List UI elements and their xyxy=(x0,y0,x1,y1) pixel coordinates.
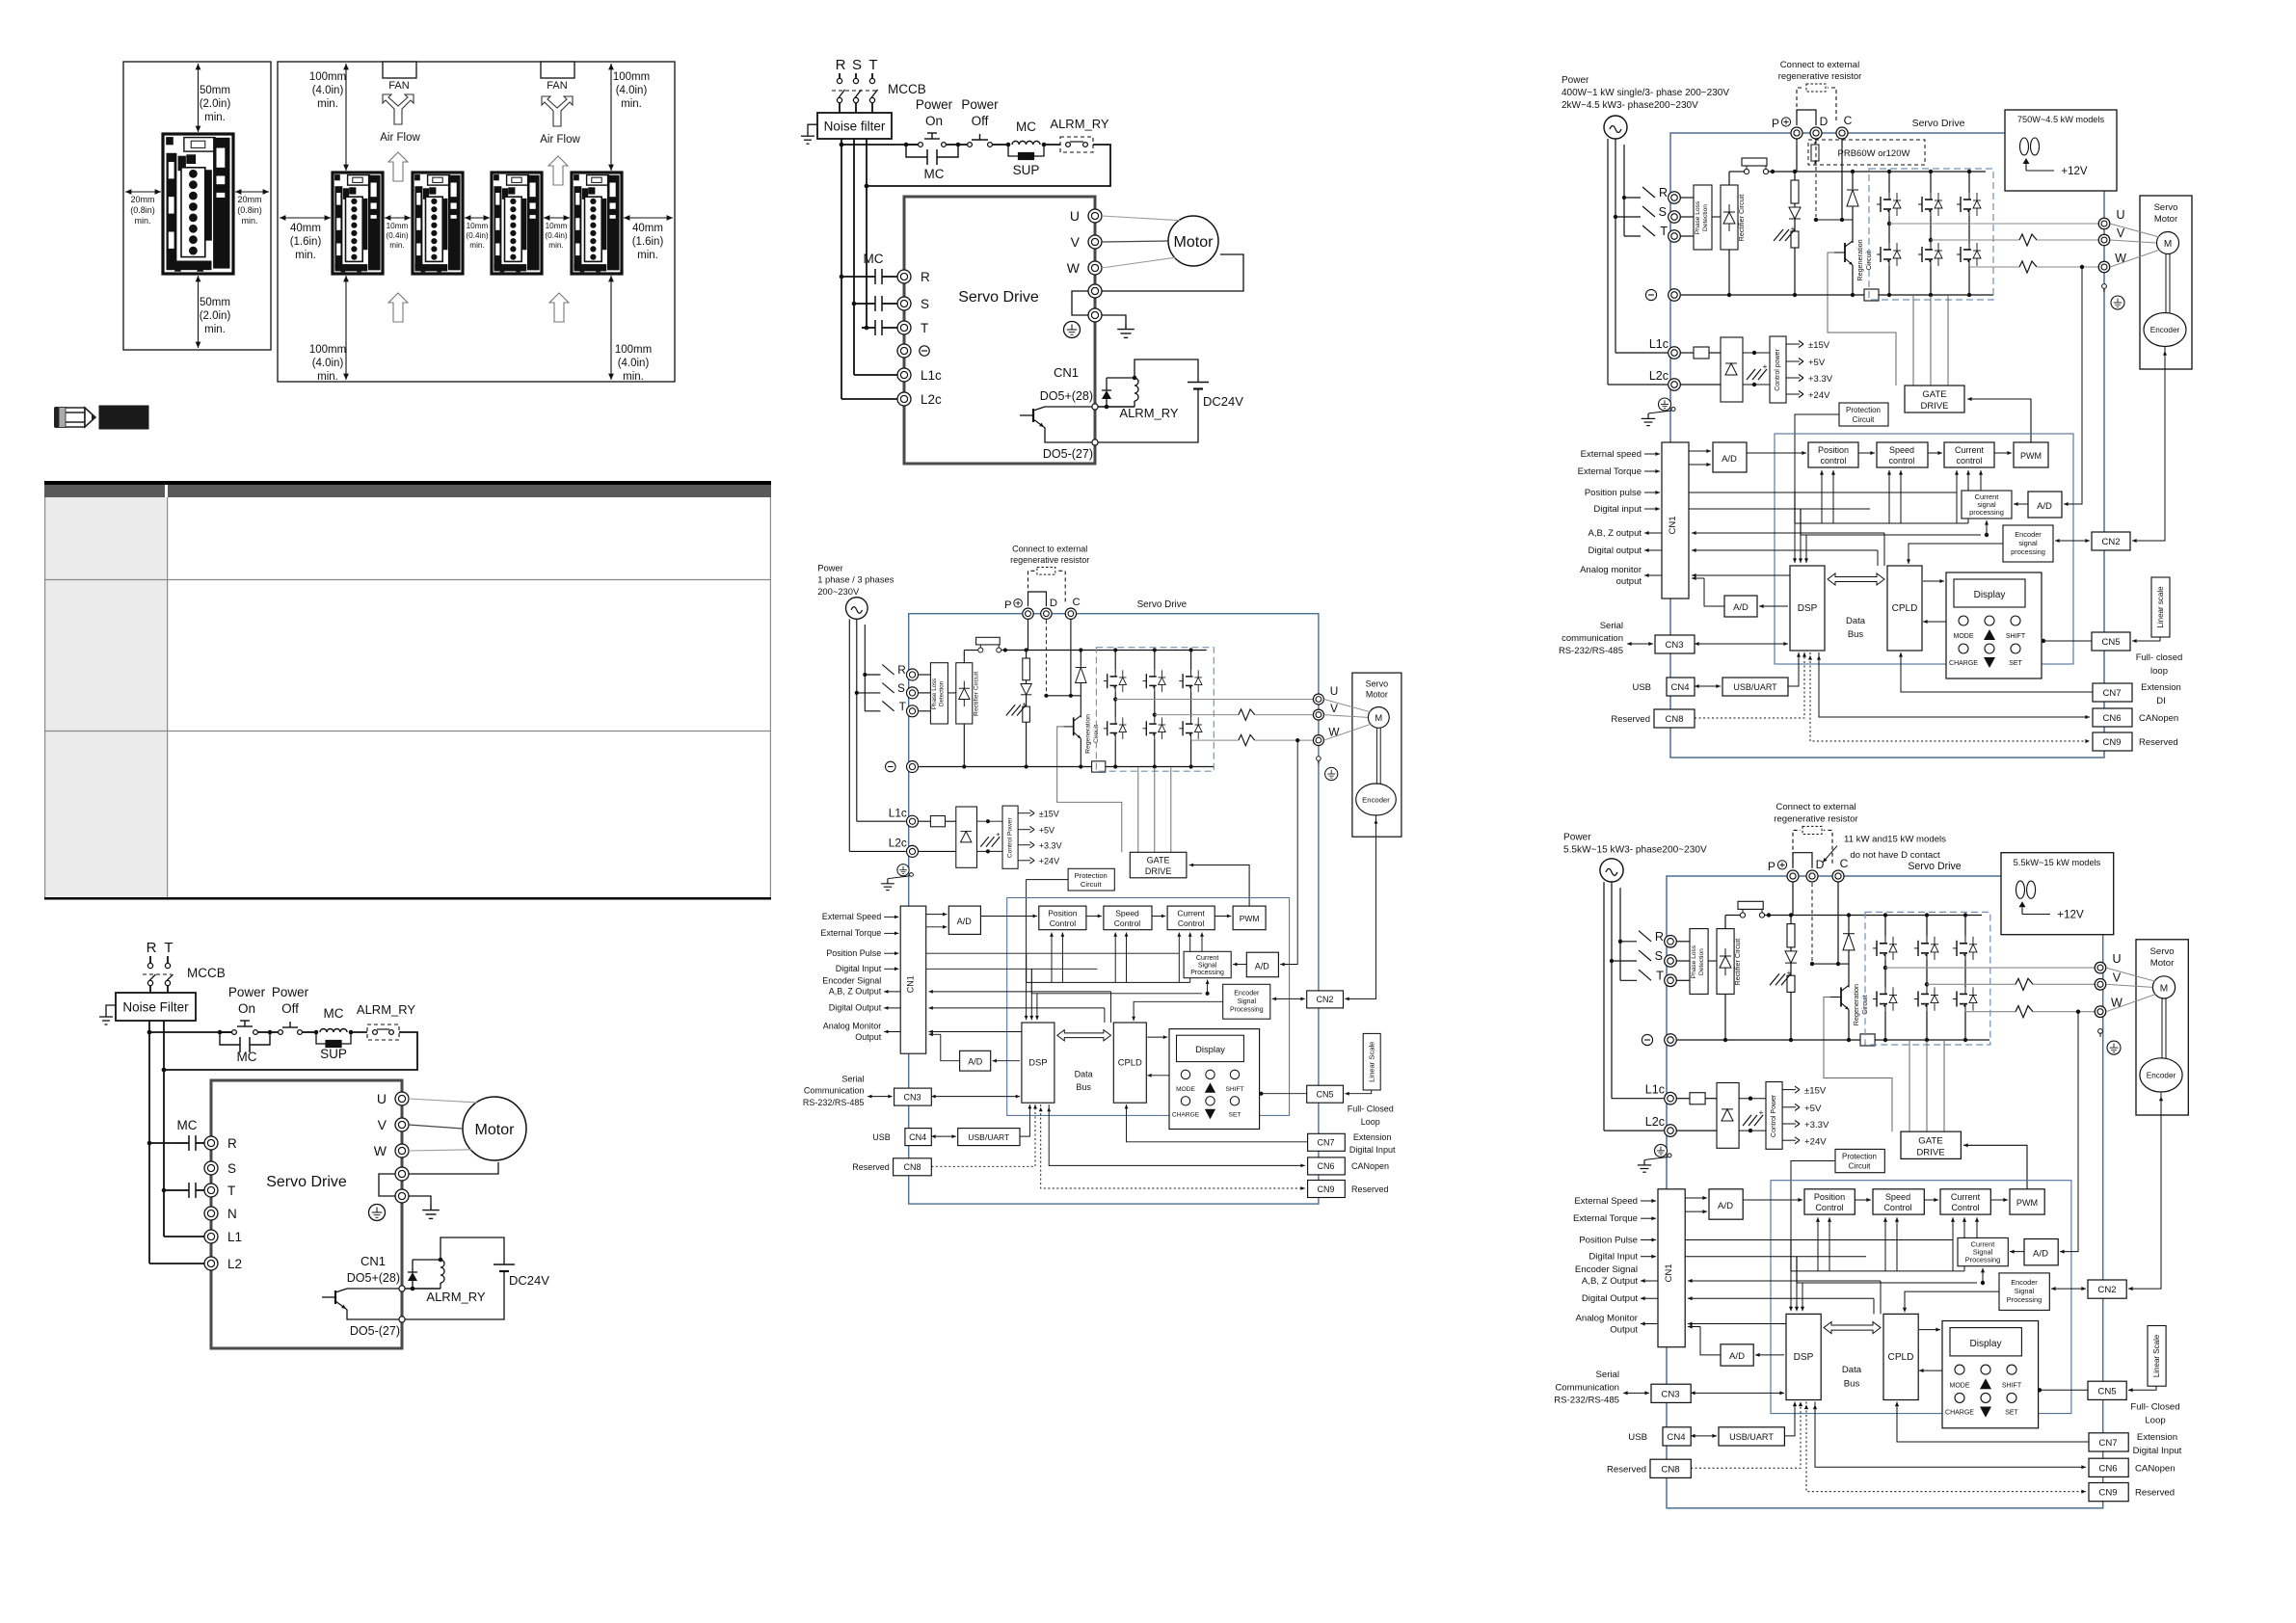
motor shaft to encoder xyxy=(1375,728,1377,785)
wire feeders to contacts xyxy=(149,1142,175,1144)
terminal S xyxy=(907,687,919,699)
wire rectifier negative xyxy=(1724,994,1726,1040)
drive earth xyxy=(1659,398,1671,411)
svg-text:Protection: Protection xyxy=(1842,1153,1877,1161)
regeneration diode xyxy=(1852,172,1854,189)
jumper P-D xyxy=(1028,592,1047,606)
svg-text:Bus: Bus xyxy=(1076,1082,1091,1092)
svg-text:CN9: CN9 xyxy=(1317,1184,1334,1194)
switch T xyxy=(1642,226,1655,236)
position control xyxy=(1804,1189,1855,1214)
svg-text:R: R xyxy=(921,270,930,284)
svg-text:DO5+(28): DO5+(28) xyxy=(347,1271,400,1285)
svg-text:CN2: CN2 xyxy=(2097,1285,2116,1295)
svg-text:DO5+(28): DO5+(28) xyxy=(1040,389,1093,403)
connector CN2 xyxy=(2092,532,2130,550)
linear scale xyxy=(2148,1326,2166,1387)
svg-text:output: output xyxy=(1616,576,1642,587)
noise filter ground xyxy=(808,124,817,136)
display panel xyxy=(1169,1029,1260,1130)
svg-text:Encoder Signal: Encoder Signal xyxy=(1575,1264,1638,1275)
wire USB/UART to DSP xyxy=(1788,652,1799,686)
IGBT power module (dashed) xyxy=(1869,169,1993,300)
svg-text:Control: Control xyxy=(1883,1203,1911,1212)
svg-text:+: + xyxy=(1787,969,1792,977)
dimension 20mm right xyxy=(235,191,269,193)
dimension 10mm xyxy=(385,217,411,219)
svg-text:V: V xyxy=(2117,226,2125,240)
terminal R xyxy=(907,669,919,680)
svg-text:DRIVE: DRIVE xyxy=(1920,401,1948,412)
svg-text:Connect to external: Connect to external xyxy=(1780,60,1859,70)
current sensor xyxy=(1239,734,1255,745)
terminal W xyxy=(2098,261,2110,273)
wire digital output to CN1 xyxy=(1688,1297,1874,1299)
svg-text:control: control xyxy=(1956,456,1982,466)
jumper P-D xyxy=(1797,110,1816,125)
wire CN1 digital input xyxy=(926,968,1098,970)
terminal S xyxy=(1665,955,1677,968)
connector CN4 xyxy=(1667,678,1695,696)
svg-text:M: M xyxy=(2164,239,2172,250)
svg-text:SUP: SUP xyxy=(1013,163,1040,177)
servo drive unit drawing xyxy=(413,173,463,274)
svg-text:DO5-(27): DO5-(27) xyxy=(1043,447,1093,461)
connector CN2 xyxy=(2088,1280,2126,1298)
svg-text:Power: Power xyxy=(961,97,999,112)
wire motor ground xyxy=(1102,254,1243,291)
wire CN3 to DSP xyxy=(1691,1392,1784,1394)
wire current sense to A/D xyxy=(2060,1012,2078,1252)
svg-text:Circuit: Circuit xyxy=(1849,1162,1871,1171)
bus lower resistor xyxy=(1791,231,1799,248)
svg-text:USB/UART: USB/UART xyxy=(1733,682,1777,692)
svg-text:V: V xyxy=(1330,702,1338,715)
wire speed to current xyxy=(1152,916,1165,918)
svg-text:CN3: CN3 xyxy=(1661,1389,1679,1399)
svg-text:Output: Output xyxy=(1610,1325,1638,1336)
svg-text:A,B, Z output: A,B, Z output xyxy=(1589,528,1642,539)
wire digital output to CN1 xyxy=(929,1007,1105,1009)
svg-text:A/D: A/D xyxy=(1718,1201,1733,1211)
wire current to PWM xyxy=(1215,916,1231,918)
wire rectifier negative xyxy=(963,724,965,766)
drive earth xyxy=(1655,1144,1668,1157)
wire rectifier negative xyxy=(1728,250,1730,295)
svg-text:CN8: CN8 xyxy=(1661,1464,1679,1475)
terminal R xyxy=(1665,936,1677,948)
speed control xyxy=(1877,442,1928,467)
terminal T xyxy=(1669,230,1681,243)
connector CN8 xyxy=(1650,1459,1691,1477)
gate drive xyxy=(1905,386,1964,412)
terminal minus xyxy=(1669,289,1681,302)
wire linear scale to CN5 xyxy=(2132,637,2160,641)
svg-text:+5V: +5V xyxy=(1808,358,1826,368)
svg-text:+24V: +24V xyxy=(1804,1136,1827,1147)
control mesh wires xyxy=(1795,522,1968,524)
connector CN1 xyxy=(1658,1189,1685,1347)
svg-text:10mm: 10mm xyxy=(387,222,409,230)
wire protection to control xyxy=(1795,414,1839,523)
wire CSP to current control xyxy=(1201,933,1203,952)
svg-text:CPLD: CPLD xyxy=(1892,603,1918,614)
svg-text:R: R xyxy=(897,663,906,677)
terminal C xyxy=(1065,608,1076,619)
wires R S T to phase loss detection xyxy=(1680,197,1694,199)
USB/UART xyxy=(1722,678,1788,696)
terminal L1c xyxy=(907,815,919,827)
svg-text:Full- Closed: Full- Closed xyxy=(1348,1104,1394,1114)
wire analog monitor to CN1 xyxy=(929,1031,1022,1033)
IGBT leg 3 xyxy=(1968,172,1970,193)
svg-text:Digital Output: Digital Output xyxy=(1582,1293,1638,1304)
svg-text:SHIFT: SHIFT xyxy=(2006,633,2026,640)
connector CN6 xyxy=(2089,1458,2128,1477)
wire battery return xyxy=(405,1271,504,1319)
bus diode xyxy=(1794,203,1796,207)
svg-text:Reserved: Reserved xyxy=(852,1162,890,1172)
terminal R xyxy=(1669,192,1681,204)
terminal V xyxy=(2095,979,2106,991)
wire CN9 reserved (dotted) xyxy=(1041,1104,1305,1188)
svg-text:CN8: CN8 xyxy=(903,1162,921,1172)
motor wires xyxy=(2110,224,2159,237)
svg-text:MC: MC xyxy=(924,167,945,181)
servo drive unit drawing xyxy=(333,173,383,274)
svg-text:Motor: Motor xyxy=(1366,690,1388,700)
svg-text:MODE: MODE xyxy=(1950,1382,1970,1389)
connector CN4 xyxy=(1663,1427,1691,1446)
svg-text:D: D xyxy=(1050,598,1057,609)
svg-text:20mm: 20mm xyxy=(130,195,154,204)
svg-text:5.5kW~15 kW3- phase200~230V: 5.5kW~15 kW3- phase200~230V xyxy=(1563,845,1707,856)
svg-text:50mm: 50mm xyxy=(200,85,230,96)
wire C terminal down xyxy=(1070,619,1072,695)
svg-text:Power: Power xyxy=(1563,833,1591,843)
current sensor xyxy=(2019,261,2037,273)
svg-text:Phase Loss: Phase Loss xyxy=(1695,200,1701,234)
svg-text:U: U xyxy=(1330,684,1339,698)
ground terminals xyxy=(395,1167,409,1181)
svg-text:CN5: CN5 xyxy=(2097,1386,2116,1397)
svg-text:Encoder: Encoder xyxy=(2015,530,2042,539)
svg-text:SET: SET xyxy=(2005,1410,2018,1417)
svg-text:Communication: Communication xyxy=(1555,1382,1619,1393)
switch R xyxy=(1642,187,1655,198)
output terminals U V W xyxy=(395,1092,409,1105)
current sensor xyxy=(2016,978,2033,990)
svg-text:Digital Input: Digital Input xyxy=(1589,1252,1638,1263)
svg-text:N: N xyxy=(227,1207,237,1221)
fan air flow Y-arrow xyxy=(542,96,573,126)
svg-text:ALRM_RY: ALRM_RY xyxy=(357,1002,416,1017)
svg-text:External Speed: External Speed xyxy=(822,912,882,921)
svg-text:Processing: Processing xyxy=(2007,1295,2042,1304)
terminal P xyxy=(1023,608,1033,619)
svg-text:+3.3V: +3.3V xyxy=(1039,841,1062,851)
svg-text:DO5-(27): DO5-(27) xyxy=(350,1324,400,1338)
svg-text:50mm: 50mm xyxy=(200,297,230,308)
wire ESP to CN2 xyxy=(1272,998,1305,999)
terminal minus xyxy=(907,761,919,773)
svg-text:Analog Monitor: Analog Monitor xyxy=(1575,1314,1638,1324)
svg-text:CPLD: CPLD xyxy=(1888,1352,1914,1363)
svg-text:Servo Drive: Servo Drive xyxy=(958,289,1039,306)
ground jumper xyxy=(1072,291,1088,315)
svg-text:U: U xyxy=(377,1091,387,1106)
wire CN1 position pulse to DSP xyxy=(926,952,1180,954)
terminal C xyxy=(1836,127,1848,139)
svg-text:S: S xyxy=(921,297,929,311)
DC bus positive xyxy=(1767,913,1771,917)
svg-text:PRB60W or120W: PRB60W or120W xyxy=(1838,148,1910,159)
node D-C to regeneration xyxy=(1046,695,1081,697)
svg-text:Circuit: Circuit xyxy=(1853,415,1875,424)
protective earth symbol xyxy=(1064,322,1081,338)
svg-text:2kW~4.5 kW3- phase200~230V: 2kW~4.5 kW3- phase200~230V xyxy=(1562,100,1698,111)
air flow arrow xyxy=(388,152,408,181)
svg-text:+: + xyxy=(1763,362,1768,371)
dimension 10mm xyxy=(544,217,570,219)
contactor contacts MC at drive input xyxy=(874,269,876,284)
svg-text:Loop: Loop xyxy=(2145,1416,2165,1426)
svg-text:Connect to external: Connect to external xyxy=(1775,802,1855,812)
control rectifier xyxy=(956,807,977,867)
bus resistor xyxy=(1023,658,1030,680)
wire A/D to position control xyxy=(980,916,1037,918)
svg-text:Servo Drive: Servo Drive xyxy=(1137,599,1188,610)
svg-text:Encoder: Encoder xyxy=(1234,991,1260,998)
svg-text:A/D: A/D xyxy=(1722,454,1737,465)
svg-text:Signal: Signal xyxy=(1238,998,1257,1005)
wire encoder to CN2 xyxy=(2132,347,2165,541)
air flow arrow xyxy=(388,293,408,322)
wire ESP to CN2 xyxy=(2055,540,2090,542)
connector CN7 xyxy=(2093,683,2132,702)
wire to CSP bottom xyxy=(1207,980,1209,994)
terminal U xyxy=(1313,694,1323,705)
wire CN6 CANopen xyxy=(1815,1402,2086,1468)
soft charge fuse xyxy=(1729,171,1744,173)
svg-text:CN3: CN3 xyxy=(1665,640,1683,651)
svg-text:Communication: Communication xyxy=(804,1086,865,1096)
terminal D xyxy=(1806,870,1818,882)
wire display to CPLD xyxy=(1923,621,1946,623)
svg-text:Circuit: Circuit xyxy=(1081,880,1102,889)
wire CN6 CANopen xyxy=(1049,1104,1305,1165)
svg-text:Encoder: Encoder xyxy=(2011,1278,2038,1287)
svg-text:DRIVE: DRIVE xyxy=(1916,1147,1944,1157)
svg-text:DI: DI xyxy=(2156,696,2166,706)
svg-text:L2c: L2c xyxy=(1649,369,1669,383)
DC bus negative xyxy=(1677,1039,1989,1041)
svg-text:RS-232/RS-485: RS-232/RS-485 xyxy=(1554,1396,1619,1406)
dimension 100mm bottom-right xyxy=(610,276,612,380)
wire CN7 to CPLD xyxy=(1897,1402,2089,1443)
svg-text:U: U xyxy=(2116,208,2124,222)
svg-text:Digital Input: Digital Input xyxy=(836,964,882,973)
svg-text:Control: Control xyxy=(1951,1203,1979,1212)
svg-text:Control: Control xyxy=(1178,918,1205,928)
current sensor xyxy=(2016,1006,2033,1018)
push button Power On xyxy=(919,143,923,147)
wire control circuit xyxy=(149,1031,231,1033)
svg-text:CN5: CN5 xyxy=(2101,637,2120,648)
switch T xyxy=(1639,970,1651,980)
rectifier circuit xyxy=(1721,185,1738,250)
svg-text:CN5: CN5 xyxy=(1316,1090,1333,1100)
wires R S T to phase loss detection xyxy=(918,674,930,676)
DSP xyxy=(1790,566,1825,651)
svg-text:Speed: Speed xyxy=(1115,909,1139,918)
svg-text:min.: min. xyxy=(548,241,563,250)
motor frame ground xyxy=(1317,757,1322,761)
svg-text:CN1: CN1 xyxy=(905,975,915,993)
wire encoder outputs to CN1 xyxy=(1688,1280,1881,1282)
phase loss detection xyxy=(1690,929,1708,995)
servo drive enclosure (blue) xyxy=(1667,876,2103,1508)
svg-text:communication: communication xyxy=(1562,633,1623,644)
svg-text:Current: Current xyxy=(1196,955,1218,962)
svg-text:GATE: GATE xyxy=(1147,856,1170,865)
svg-text:(2.0in): (2.0in) xyxy=(200,98,231,110)
wire rectifier to DC bus xyxy=(963,651,965,663)
svg-text:DRIVE: DRIVE xyxy=(1145,866,1172,876)
IGBT leg 2 xyxy=(1930,172,1932,193)
svg-text:V: V xyxy=(378,1117,387,1132)
A/D converter (top) xyxy=(1709,1189,1743,1219)
svg-text:Display: Display xyxy=(1195,1044,1225,1054)
svg-text:CPLD: CPLD xyxy=(1118,1056,1142,1067)
encoder xyxy=(2140,1058,2182,1092)
svg-text:CANopen: CANopen xyxy=(2135,1463,2176,1474)
current control xyxy=(1167,906,1215,930)
svg-text:Air Flow: Air Flow xyxy=(380,132,420,144)
svg-text:A/D: A/D xyxy=(957,917,973,926)
terminal T xyxy=(1665,974,1677,987)
svg-text:Position: Position xyxy=(1048,909,1078,918)
DC bus capacitor xyxy=(1770,973,1779,985)
wire CN1 position pulse to DSP xyxy=(1689,492,1957,493)
motor frame ground xyxy=(2098,1029,2103,1034)
svg-text:Control: Control xyxy=(1114,918,1141,928)
wire ESP to CN2 xyxy=(2051,1288,2086,1290)
switch S xyxy=(1642,206,1655,217)
wire ESP to CPLD xyxy=(1909,544,2003,564)
servo drive unit drawing xyxy=(572,173,622,274)
svg-text:Data: Data xyxy=(1846,616,1866,626)
shunt resistor xyxy=(1092,761,1106,772)
encoder signal processing xyxy=(2003,525,2053,562)
svg-text:A/D: A/D xyxy=(2033,1249,2048,1260)
svg-text:C: C xyxy=(1073,597,1081,608)
connector CN5 xyxy=(2092,632,2130,651)
svg-text:CN4: CN4 xyxy=(1667,1432,1686,1443)
svg-text:Phase Loss: Phase Loss xyxy=(931,678,938,709)
earth at drive output xyxy=(409,1196,431,1204)
protection circuit xyxy=(1839,403,1888,426)
wire display to CPLD xyxy=(1919,1370,1942,1371)
control power block xyxy=(1002,806,1018,868)
A/D converter (top) xyxy=(1713,442,1747,472)
svg-text:C: C xyxy=(1844,114,1853,127)
svg-text:Display: Display xyxy=(1969,1339,2002,1349)
control logic box (blue) xyxy=(1771,1181,2071,1414)
wire L2c to control rectifier xyxy=(1676,1130,1717,1131)
flywheel diode xyxy=(412,1281,414,1289)
svg-text:Encoder: Encoder xyxy=(2150,326,2180,334)
wire DO5+ node xyxy=(405,1288,441,1290)
svg-text:min.: min. xyxy=(389,241,404,250)
svg-text:+24V: +24V xyxy=(1039,857,1059,866)
svg-text:ALRM_RY: ALRM_RY xyxy=(1050,117,1109,131)
svg-text:Rectifier Circuit: Rectifier Circuit xyxy=(1733,939,1742,986)
connector CN3 xyxy=(1655,635,1695,653)
speed control xyxy=(1873,1189,1924,1214)
svg-text:Power: Power xyxy=(916,97,953,112)
input terminals xyxy=(897,270,911,283)
svg-text:MC: MC xyxy=(1016,120,1036,134)
wire linear scale to CN5 xyxy=(1345,1090,1371,1094)
wire CN1 digital input xyxy=(1685,1256,1866,1258)
svg-text:Off: Off xyxy=(972,114,989,128)
svg-text:10mm: 10mm xyxy=(467,222,489,230)
wire encoder outputs to CN1 xyxy=(1692,532,1884,534)
control power outputs xyxy=(1786,343,1800,345)
connector CN8 xyxy=(1654,709,1695,728)
svg-text:signal: signal xyxy=(2018,539,2038,547)
ground jumper xyxy=(379,1174,395,1196)
data bus xyxy=(1824,1321,1881,1333)
svg-text:R: R xyxy=(227,1136,237,1151)
transistor DO5 output xyxy=(1032,409,1034,422)
noise filter xyxy=(817,113,892,139)
A/D converter (bottom) xyxy=(960,1051,991,1071)
svg-text:A/D: A/D xyxy=(1733,602,1749,613)
svg-text:ALRM_RY: ALRM_RY xyxy=(426,1290,486,1304)
wire protection to control xyxy=(1791,1161,1835,1271)
svg-text:CHARGE: CHARGE xyxy=(1172,1111,1200,1118)
svg-text:Digital Input: Digital Input xyxy=(2133,1446,2182,1456)
svg-text:CN8: CN8 xyxy=(1665,714,1683,725)
wire to L1c xyxy=(1615,352,1668,354)
svg-text:R: R xyxy=(836,57,846,73)
speed control xyxy=(1104,906,1152,930)
svg-text:Position Pulse: Position Pulse xyxy=(1579,1236,1638,1246)
current sensor xyxy=(1239,709,1255,720)
wire W output xyxy=(1191,739,1239,741)
wire to L2c xyxy=(1604,1130,1664,1131)
relay coil MC xyxy=(993,144,1008,146)
svg-text:Control Power: Control Power xyxy=(1007,817,1014,859)
svg-text:Reserved: Reserved xyxy=(2139,737,2178,748)
svg-text:L1c: L1c xyxy=(921,368,942,383)
wire keypad to CN5 xyxy=(2042,640,2092,642)
svg-text:Encoder: Encoder xyxy=(2147,1072,2176,1080)
terminal W xyxy=(2095,1006,2106,1018)
svg-text:P: P xyxy=(1768,860,1775,873)
svg-text:P: P xyxy=(1004,599,1012,611)
svg-text:U: U xyxy=(2112,952,2121,966)
position control xyxy=(1808,442,1858,467)
svg-text:CN4: CN4 xyxy=(909,1132,926,1142)
wire analog monitor to CN1 xyxy=(1692,574,1790,576)
note pencil icon xyxy=(54,407,95,428)
wire C terminal down xyxy=(1837,882,1839,964)
specification table xyxy=(44,481,771,900)
wire battery return xyxy=(1098,389,1198,443)
